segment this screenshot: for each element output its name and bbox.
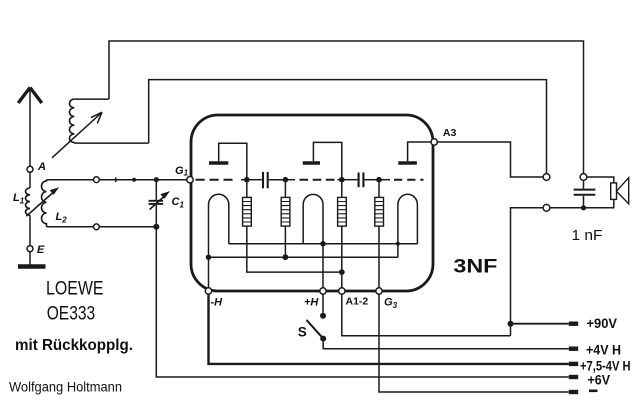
grid 2 dashed <box>285 179 341 181</box>
svg-text:Wolfgang Holtmann: Wolfgang Holtmann <box>9 379 122 394</box>
anode A3 <box>398 142 431 163</box>
wire R4 lead to G3 <box>378 226 380 288</box>
tick mark <box>115 177 117 182</box>
node junction 3 <box>339 177 345 183</box>
wire A to L1 <box>29 172 31 188</box>
node junction 2 <box>283 177 289 183</box>
wire filament row y243 <box>229 243 418 245</box>
node junction 4 <box>376 177 382 183</box>
svg-text:+4V H: +4V H <box>586 341 621 357</box>
anode A1 <box>209 143 247 179</box>
resistor R2 <box>281 182 290 226</box>
wire W2 feedback to jack <box>149 80 547 174</box>
dot on top wire <box>132 178 136 182</box>
resistor R1 <box>243 182 252 226</box>
capacitor C1 <box>149 180 170 227</box>
coupling arrow L1/L2 <box>26 187 59 216</box>
wire switch to +4V rail <box>323 342 569 349</box>
wire top W1 <box>109 41 584 174</box>
wire E to ground <box>29 252 31 265</box>
wire cap to junction 2 <box>269 179 286 181</box>
speaker <box>611 178 629 204</box>
coil L1 <box>25 188 30 215</box>
filament arch 3 <box>398 194 418 257</box>
tube 3NF outline <box>191 115 433 291</box>
wire L2 top to G1 <box>47 179 187 181</box>
terminal A3 <box>431 139 437 145</box>
wire -H to +7,5-4V rail <box>209 294 569 364</box>
filament arch 2 <box>303 194 323 243</box>
svg-text:+90V: +90V <box>587 315 618 331</box>
svg-text:OE333: OE333 <box>47 302 95 324</box>
wire cap top to speaker <box>587 177 614 183</box>
feedback arrow <box>52 112 102 158</box>
wire +90V rail <box>511 323 569 325</box>
node -H tap <box>206 255 211 260</box>
svg-text:mit Rückkopplg.: mit Rückkopplg. <box>15 337 133 354</box>
capacitor 1nF <box>574 180 596 207</box>
resistor R3 <box>338 182 347 226</box>
ground <box>18 264 46 268</box>
grid 1 dashed <box>196 179 247 181</box>
rail bar +7,5-4V <box>569 362 578 366</box>
svg-text:+H: +H <box>304 297 319 309</box>
svg-text:A3: A3 <box>443 127 457 139</box>
wire +H to switch <box>322 294 324 313</box>
junction C1 top <box>154 177 159 182</box>
node R2 bottom <box>283 254 289 260</box>
rail bar +4V <box>569 347 578 351</box>
svg-text:+6V: +6V <box>588 371 611 387</box>
terminal circle bottom wire <box>94 224 100 230</box>
node junction 1 <box>244 177 250 183</box>
svg-text:A1-2: A1-2 <box>346 296 369 308</box>
wire R2 lead <box>284 226 286 257</box>
node +H filament junction <box>320 241 325 246</box>
node E <box>27 246 33 252</box>
coupling capacitor 2 <box>359 173 364 188</box>
node anode supply <box>339 269 345 275</box>
svg-text:3NF: 3NF <box>453 256 497 278</box>
terminal circle top wire <box>94 177 100 183</box>
antenna <box>18 88 42 167</box>
coupling capacitor 1 <box>263 172 268 188</box>
terminal G3 <box>376 288 382 294</box>
node cap bottom <box>581 205 586 210</box>
node +90V junction <box>508 321 514 327</box>
wire L2 bottom to C1 <box>47 226 157 228</box>
junction C1 bottom <box>153 224 159 230</box>
svg-text:E: E <box>37 244 45 256</box>
node A <box>27 166 33 172</box>
coil L2 <box>42 180 47 227</box>
svg-text:LOEWE: LOEWE <box>46 278 104 300</box>
wire jack lower to +90V node <box>511 208 544 336</box>
switch S <box>307 313 327 342</box>
feedback coil <box>70 99 149 143</box>
wire A1-2 to +90V <box>342 294 511 336</box>
terminal circle cap top <box>580 174 587 181</box>
wire L1 to E <box>29 215 31 246</box>
label minus <box>589 389 598 392</box>
svg-text:-H: -H <box>211 297 224 309</box>
svg-text:S: S <box>298 324 307 339</box>
terminal A1-2 <box>339 288 345 294</box>
svg-text:1 nF: 1 nF <box>572 227 603 244</box>
terminal +H <box>320 288 326 294</box>
anode A2 <box>303 142 342 179</box>
wire to cap 2 <box>342 179 358 181</box>
resistor R4 <box>375 182 384 226</box>
wire R1 to A1-2 <box>247 226 342 272</box>
wire A3 to jack <box>437 142 543 177</box>
rail bar +90V <box>569 322 578 326</box>
wire to cap <box>247 179 262 181</box>
grid 3 dashed <box>379 179 424 181</box>
jack lower <box>543 204 550 211</box>
wire cap 2 to junction 4 <box>365 179 380 181</box>
terminal -H <box>205 288 211 294</box>
jack upper <box>543 174 550 181</box>
filament arch 1 <box>209 194 229 288</box>
wire +H drop <box>322 244 324 288</box>
rail bar minus <box>569 390 578 394</box>
wire jack to speaker bottom <box>550 199 614 207</box>
node arch3 crossing <box>396 242 400 246</box>
rail bar +6V <box>569 375 578 379</box>
wire C1 bottom to +6V rail <box>156 227 569 377</box>
svg-text:A: A <box>37 161 46 173</box>
wire R3 lead to A1-2 <box>341 226 343 288</box>
terminal G1 <box>187 177 193 183</box>
wire G3 to minus rail <box>379 294 569 392</box>
wire filament row y257 <box>209 256 398 258</box>
